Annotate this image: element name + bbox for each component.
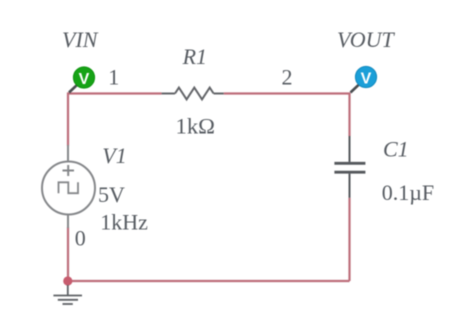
wire: left side below source xyxy=(67,227,69,281)
svg-text:1kHz: 1kHz xyxy=(100,210,148,235)
capacitor C1 xyxy=(334,136,365,198)
probe VIN (green) xyxy=(69,67,95,93)
junction dot node 0 xyxy=(63,276,72,285)
resistor R1 xyxy=(162,88,224,100)
ground xyxy=(53,285,82,304)
source V1 xyxy=(42,145,95,228)
svg-text:1: 1 xyxy=(108,65,119,90)
wire: right side below capacitor xyxy=(348,198,350,281)
svg-text:V: V xyxy=(361,70,372,87)
svg-text:R1: R1 xyxy=(182,44,207,69)
svg-text:VOUT: VOUT xyxy=(337,27,396,52)
plus sign xyxy=(63,170,75,172)
svg-text:C1: C1 xyxy=(383,137,409,162)
svg-text:1kΩ: 1kΩ xyxy=(176,113,216,138)
wire: top net 2 segment, resistor to right corner, down right side xyxy=(224,94,350,137)
svg-text:0.1µF: 0.1µF xyxy=(382,180,434,205)
svg-text:V: V xyxy=(79,71,90,88)
wire: top net 1 segment, left corner to resistor lead xyxy=(68,94,162,147)
svg-text:2: 2 xyxy=(282,65,293,90)
svg-text:VIN: VIN xyxy=(62,27,99,52)
probe VOUT (blue) xyxy=(351,66,377,92)
square wave glyph xyxy=(59,182,79,193)
svg-text:0: 0 xyxy=(75,226,86,251)
svg-text:V1: V1 xyxy=(102,143,126,168)
wire: bottom net 0 xyxy=(67,280,350,282)
svg-text:5V: 5V xyxy=(98,182,125,207)
